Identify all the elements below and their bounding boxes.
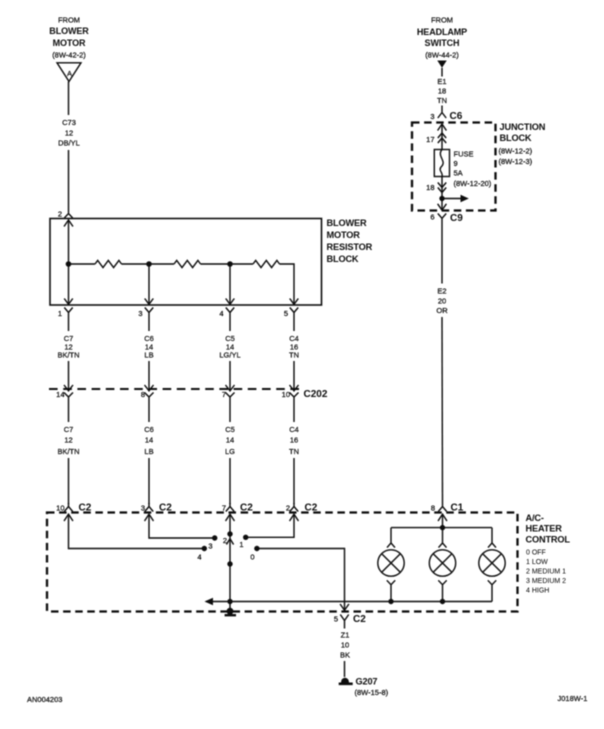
wire E2 lower segment [441,317,444,503]
wire bus segment 3 [201,263,254,265]
node lamp feed junction [440,525,445,530]
node junction col1 on bus [66,261,72,267]
wire label C4 16 TN (row 1) [289,334,299,360]
svg-text:BK/TN: BK/TN [57,447,79,456]
svg-text:3: 3 [208,542,212,551]
wire col2 to C2 [148,458,150,504]
lamp 3 bottom lead [488,580,496,601]
arrow at box edge to C2 pin 5 [340,604,349,610]
distribution continuation arrow [461,195,469,202]
wire bus segment 1 [69,263,96,265]
svg-text:LB: LB [144,351,153,360]
wire E2 upper segment [441,223,443,284]
connector C6 female fork [438,113,446,119]
svg-text:Z1: Z1 [341,631,350,640]
wire C73 upper segment [68,82,70,116]
connector C9 female fork [438,214,446,224]
arrow col4 at box bottom [290,299,299,305]
connector C2 pin 2 fork and arrow [290,503,299,521]
lamp 1 bottom lead [387,580,395,601]
svg-text:0 OFF: 0 OFF [526,550,546,557]
svg-text:TN: TN [289,447,299,456]
svg-text:MOTOR: MOTOR [53,38,86,48]
wire col4 to C202 [293,361,295,391]
ground G207 [339,678,353,684]
svg-text:C6: C6 [144,425,154,434]
svg-text:10: 10 [56,504,64,513]
svg-text:BLOCK: BLOCK [327,254,359,264]
node wiper pivot [227,561,232,566]
wire switch common col3 [229,514,231,601]
blower motor resistor block box [50,219,322,306]
node junction col3 on bus [227,261,233,267]
svg-text:17: 17 [426,135,434,144]
svg-text:A/C-: A/C- [526,513,544,523]
svg-text:16: 16 [290,436,298,445]
connector C202 pin 10 symbol [290,385,299,422]
svg-text:1 LOW: 1 LOW [526,559,548,566]
svg-text:LG: LG [225,447,235,456]
svg-text:14: 14 [226,436,234,445]
wire to C9 [441,199,443,210]
connector C202 pin 8 symbol [145,385,154,422]
svg-text:12: 12 [64,436,72,445]
svg-text:18: 18 [438,87,446,96]
svg-text:C1: C1 [451,503,464,514]
connector C202 dashed line [49,388,301,390]
svg-text:3: 3 [138,309,142,318]
svg-text:J018W-1: J018W-1 [558,694,588,703]
wire label C6 14 LB (row 2) [144,425,154,456]
svg-text:E1: E1 [437,77,446,86]
svg-text:FROM: FROM [58,16,80,25]
svg-text:4: 4 [219,309,223,318]
lamp 2 (illumination bulb) [429,550,455,576]
wire Z1 to ground [344,661,346,677]
bus continuation arrow (points left) [205,598,214,606]
svg-text:20: 20 [438,297,446,306]
connector pin 4 fork below box [226,308,234,332]
connector C2 pin 7 fork and arrow [226,503,235,521]
svg-text:5A: 5A [454,169,463,178]
fuse F9 element [440,150,443,177]
arrow col1 at box bottom [64,299,73,305]
node common at illumination bus [227,599,232,604]
svg-text:14: 14 [145,436,153,445]
svg-text:DB/YL: DB/YL [58,139,80,148]
svg-text:7: 7 [222,504,226,513]
A/C-heater control label [526,513,571,595]
svg-text:8: 8 [141,390,145,399]
wire col4 to C2 [293,458,295,504]
A/C-heater control dashed box [47,513,518,612]
arrow col3 at box bottom [226,299,235,305]
connector C9 male arrow at box edge [438,204,447,210]
lamp 3 (illumination bulb) [479,550,505,576]
node switch contact 0 [254,546,259,551]
wire col2 drop [148,264,150,304]
svg-text:2: 2 [286,504,290,513]
junction block label [499,122,546,166]
wire label C7 12 BK/TN (row 2) [57,425,79,456]
svg-text:LG/YL: LG/YL [219,351,240,360]
connector C2 pin 3 fork and arrow [145,503,154,521]
svg-text:(8W-12-3): (8W-12-3) [499,157,533,166]
svg-text:RESISTOR: RESISTOR [327,242,373,252]
svg-text:C6: C6 [450,111,463,122]
wire fuse to pin 18 [441,177,443,199]
svg-text:C4: C4 [289,425,299,434]
wire col2 to switch contact 3 [149,514,215,538]
svg-text:(8W-12-2): (8W-12-2) [499,147,533,156]
svg-text:18: 18 [426,183,434,192]
off-page connector (from headlamp switch) [437,61,446,68]
wire distribution stub [442,198,462,200]
svg-text:5: 5 [284,309,288,318]
svg-text:(8W-12-20): (8W-12-20) [454,179,492,188]
svg-text:BLOCK: BLOCK [500,133,532,143]
off-page connector A (from blower motor) [57,63,81,82]
wire label C73 12 DB/YL [58,118,80,148]
wire col3 to C2 [229,458,231,504]
lamp 1 (illumination bulb) [378,550,404,576]
svg-text:4: 4 [197,553,201,562]
node switch contact 2 [227,531,232,536]
node switch contact 3 [212,535,217,540]
wire E1 upper segment [441,68,443,77]
svg-text:BLOWER: BLOWER [327,218,367,228]
svg-text:FROM: FROM [431,16,453,25]
wire pin2 feed inside box [68,220,70,304]
node switch contact 1 [243,535,248,540]
illumination bus wire [206,601,492,603]
wire label E1 18 TN [437,77,447,105]
svg-text:C202: C202 [304,389,328,400]
svg-text:12: 12 [65,129,73,138]
connector C202 pin 7 symbol [226,385,235,422]
svg-text:14: 14 [56,390,64,399]
label FROM HEADLAMP SWITCH [417,16,467,60]
svg-text:CONTROL: CONTROL [526,535,571,545]
connector C2 pin 10 fork and arrow [64,503,73,521]
svg-text:OR: OR [436,306,448,315]
wire C6 arrow to fuse [441,124,443,150]
svg-text:2 MEDIUM 1: 2 MEDIUM 1 [526,569,566,576]
svg-text:2: 2 [58,210,62,219]
node lamp 2 at bus [440,599,445,604]
wire C73 lower segment [68,150,70,213]
svg-text:9: 9 [454,159,458,168]
node switch contact 4 [202,546,207,551]
svg-text:6: 6 [430,213,434,222]
lamp 3 top lead [488,528,496,548]
svg-text:7: 7 [222,390,226,399]
wire col3 to C202 [229,361,231,391]
svg-text:TN: TN [437,96,447,105]
connector pin 3 fork below box [145,308,153,332]
svg-text:10: 10 [282,390,290,399]
resistor R2 [174,260,201,267]
wire common to case [229,602,231,611]
junction block pin 18 chevrons [438,183,446,193]
svg-text:MOTOR: MOTOR [327,230,361,240]
svg-text:HEATER: HEATER [526,524,563,534]
connector pin 5 fork below box [290,308,298,332]
connector C1 fork and arrow [438,503,447,521]
wire col1 to C2 [68,458,70,504]
svg-text:TN: TN [289,351,299,360]
junction block pin 17 chevrons [438,133,446,143]
wire bus segment 2 [122,263,175,265]
connector pin 1 fork below box [64,308,72,332]
wire col1 to C202 [68,361,70,391]
svg-text:3: 3 [430,112,434,121]
svg-text:LB: LB [144,447,153,456]
wire col3 drop [229,264,231,304]
svg-text:8: 8 [431,504,435,513]
svg-text:HEADLAMP: HEADLAMP [417,27,467,37]
svg-text:3: 3 [141,504,145,513]
node junction block distribution [439,196,444,201]
node junction col2 on bus [146,261,152,267]
label FROM BLOWER MOTOR [49,16,89,60]
fuse F9 body [434,150,449,177]
resistor R3 [253,260,280,267]
wire label C6 14 LB (row 1) [144,334,154,360]
svg-text:G207: G207 [356,677,378,687]
connector C202 pin 14 symbol [64,385,73,422]
svg-text:BK/TN: BK/TN [57,351,79,360]
connector pin 2 male arrow inside box [64,220,73,227]
svg-text:3 MEDIUM 2: 3 MEDIUM 2 [526,578,566,585]
svg-text:C73: C73 [62,118,76,127]
svg-text:C2: C2 [353,614,366,625]
svg-text:(8W-15-8): (8W-15-8) [355,688,389,697]
svg-text:C9: C9 [450,213,463,224]
wire label E2 20 OR [436,287,448,316]
wire col2 to C202 [148,361,150,391]
svg-text:A: A [67,69,72,78]
svg-text:BK: BK [340,651,350,660]
svg-text:0: 0 [250,553,254,562]
connector pin 2 female fork at resistor block [64,214,72,219]
wire E1 lower segment [441,106,443,113]
fuse label FUSE 9 5A (8W-12-20) [454,150,492,189]
svg-text:C5: C5 [225,425,235,434]
svg-text:FUSE: FUSE [454,150,474,159]
node lamp 1 at bus [388,599,393,604]
svg-text:E2: E2 [437,287,446,296]
lamp 1 top lead [387,528,395,548]
svg-text:10: 10 [341,641,349,650]
svg-text:5: 5 [334,615,338,624]
case ground at box edge [227,608,234,615]
lamp 2 bottom lead [438,580,446,601]
svg-text:1: 1 [58,309,62,318]
svg-text:SWITCH: SWITCH [425,38,460,48]
svg-text:(8W-44-2): (8W-44-2) [425,51,459,60]
blower motor resistor block label [327,218,373,264]
svg-text:JUNCTION: JUNCTION [500,122,546,132]
wire label C5 14 LG (row 2) [225,425,235,456]
svg-text:C7: C7 [64,425,74,434]
resistor R1 [95,260,122,267]
wire contact 0 to ground drop [257,549,345,611]
connector C6 male arrow inside junction block [438,124,447,131]
svg-text:AN004203: AN004203 [27,695,62,704]
arrow col2 at box bottom [145,299,154,305]
svg-text:4 HIGH: 4 HIGH [526,588,549,595]
wire lamp feed rail [391,527,492,529]
svg-text:BLOWER: BLOWER [49,26,89,36]
switch wiper arrow [226,539,233,545]
svg-text:(8W-42-2): (8W-42-2) [52,51,86,60]
svg-text:1: 1 [239,540,243,549]
wire col4 to switch contact 1 [246,514,294,537]
wire col1 to switch contact 4 [69,514,205,548]
junction block dashed box [412,123,496,211]
wire label C5 14 LG/YL (row 1) [219,334,240,360]
wire bus to col4 corner [280,264,295,304]
wire label Z1 10 BK [340,631,350,660]
wire label C4 16 TN (row 2) [289,425,299,456]
wire lamp feed from C1 [442,514,444,527]
connector C2 pin 5 fork below box [340,615,348,629]
lamp 2 top lead [439,528,447,548]
wire label C7 12 BK/TN (row 1) [57,334,79,360]
